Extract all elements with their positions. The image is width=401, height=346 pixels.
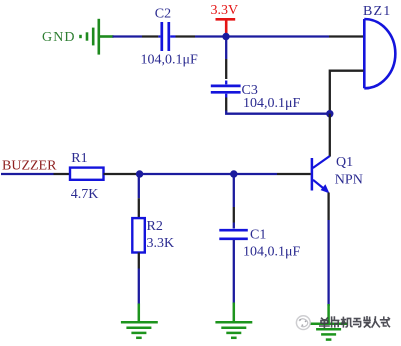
svg-text:GND: GND <box>42 30 76 45</box>
node junction collector <box>326 110 333 117</box>
ground (earth) below Q1 emitter <box>310 304 347 340</box>
capacitor C3 <box>211 38 241 112</box>
wire emitter to ground <box>327 193 329 307</box>
wire C2 to junction <box>195 35 226 37</box>
char qian <box>364 317 370 327</box>
buzzer bottom pin wire (black) <box>330 71 364 112</box>
svg-text:C2: C2 <box>155 6 171 21</box>
svg-text:C1: C1 <box>250 228 266 243</box>
node junction base/C1 <box>230 170 237 177</box>
svg-text:3.3V: 3.3V <box>211 3 239 18</box>
buzzer BZ1 <box>364 19 395 88</box>
wire junction to collector <box>329 114 331 157</box>
wire BUZZER to R1 <box>1 173 54 175</box>
resistor R1 <box>54 168 140 180</box>
wire GND to C2 <box>113 35 143 37</box>
svg-text:BUZZER: BUZZER <box>2 158 57 173</box>
svg-text:104,0.1μF: 104,0.1μF <box>243 96 301 111</box>
power symbol 3.3V <box>216 19 236 34</box>
wire R2 to ground <box>138 269 140 305</box>
buzzer top pin wire (black) <box>329 35 364 37</box>
wire junction1 to junction2 <box>140 173 234 175</box>
char yu <box>354 319 361 327</box>
wire junction2 to base <box>234 173 277 175</box>
ground (earth) below C1 <box>215 303 252 338</box>
char shi <box>381 317 390 326</box>
ground (earth) below R2 <box>121 304 158 338</box>
char ji <box>341 317 351 327</box>
svg-text:3.3K: 3.3K <box>147 236 175 251</box>
wire C3 bottom to collector node <box>226 111 330 114</box>
node junction at 3.3V rail <box>222 33 229 40</box>
resistor R2 <box>132 175 145 269</box>
svg-text:R2: R2 <box>147 219 163 234</box>
power ground symbol (bar style, pointing left) <box>81 19 114 55</box>
svg-text:Q1: Q1 <box>336 155 353 170</box>
svg-text:104,0.1μF: 104,0.1μF <box>243 245 301 260</box>
svg-text:BZ1: BZ1 <box>363 4 392 19</box>
svg-text:104,0.1μF: 104,0.1μF <box>141 52 199 67</box>
char pian <box>332 317 339 327</box>
svg-text:NPN: NPN <box>335 173 363 188</box>
watermark logo circle <box>296 316 310 330</box>
svg-text:R1: R1 <box>71 151 87 166</box>
watermark text (CJK glyph shapes) <box>320 317 390 328</box>
node junction base/R2 <box>136 170 143 177</box>
capacitor C2 <box>142 22 195 51</box>
transistor Q1 <box>277 156 330 193</box>
svg-text:4.7K: 4.7K <box>71 187 99 202</box>
wire C1 to ground <box>233 240 235 304</box>
wire junction to buzzer <box>226 35 329 37</box>
capacitor C1 <box>219 175 248 239</box>
char dan <box>320 318 329 327</box>
char ru <box>372 317 379 327</box>
